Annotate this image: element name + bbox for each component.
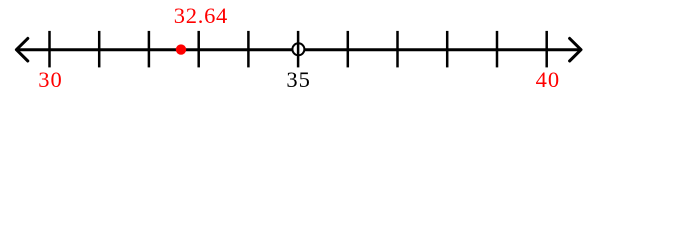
- svg-text:35: 35: [286, 67, 310, 92]
- svg-text:30: 30: [38, 67, 62, 92]
- svg-text:32.64: 32.64: [174, 3, 228, 28]
- svg-text:40: 40: [536, 67, 560, 92]
